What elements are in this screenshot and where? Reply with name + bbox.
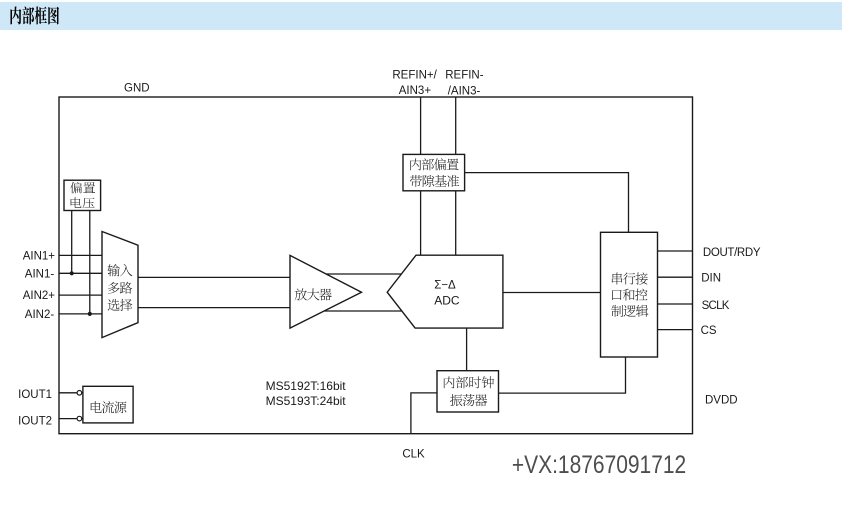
svg-text:REFIN+/: REFIN+/: [392, 70, 437, 82]
svg-text:Σ−Δ: Σ−Δ: [434, 279, 456, 291]
svg-text:DVDD: DVDD: [705, 395, 738, 407]
svg-text:ADC: ADC: [434, 293, 460, 307]
svg-text:MS5192T:16bit: MS5192T:16bit: [266, 379, 347, 393]
svg-text:DIN: DIN: [701, 273, 721, 285]
svg-text:/AIN3-: /AIN3-: [448, 86, 481, 98]
svg-text:AIN2-: AIN2-: [25, 309, 55, 321]
svg-text:GND: GND: [124, 83, 150, 95]
svg-text:CS: CS: [701, 325, 717, 337]
svg-text:CLK: CLK: [402, 449, 425, 461]
svg-text:IOUT1: IOUT1: [18, 389, 52, 401]
svg-text:AIN1+: AIN1+: [23, 251, 56, 263]
svg-text:AIN2+: AIN2+: [23, 290, 56, 302]
svg-text:AIN3+: AIN3+: [399, 85, 432, 97]
svg-text:DOUT/RDY: DOUT/RDY: [703, 247, 761, 259]
svg-text:+VX:18767091712: +VX:18767091712: [512, 451, 686, 479]
svg-text:REFIN-: REFIN-: [445, 70, 484, 82]
svg-text:MS5193T:24bit: MS5193T:24bit: [266, 394, 347, 408]
svg-text:AIN1-: AIN1-: [25, 268, 55, 280]
svg-text:SCLK: SCLK: [702, 300, 730, 312]
svg-text:IOUT2: IOUT2: [18, 416, 52, 428]
